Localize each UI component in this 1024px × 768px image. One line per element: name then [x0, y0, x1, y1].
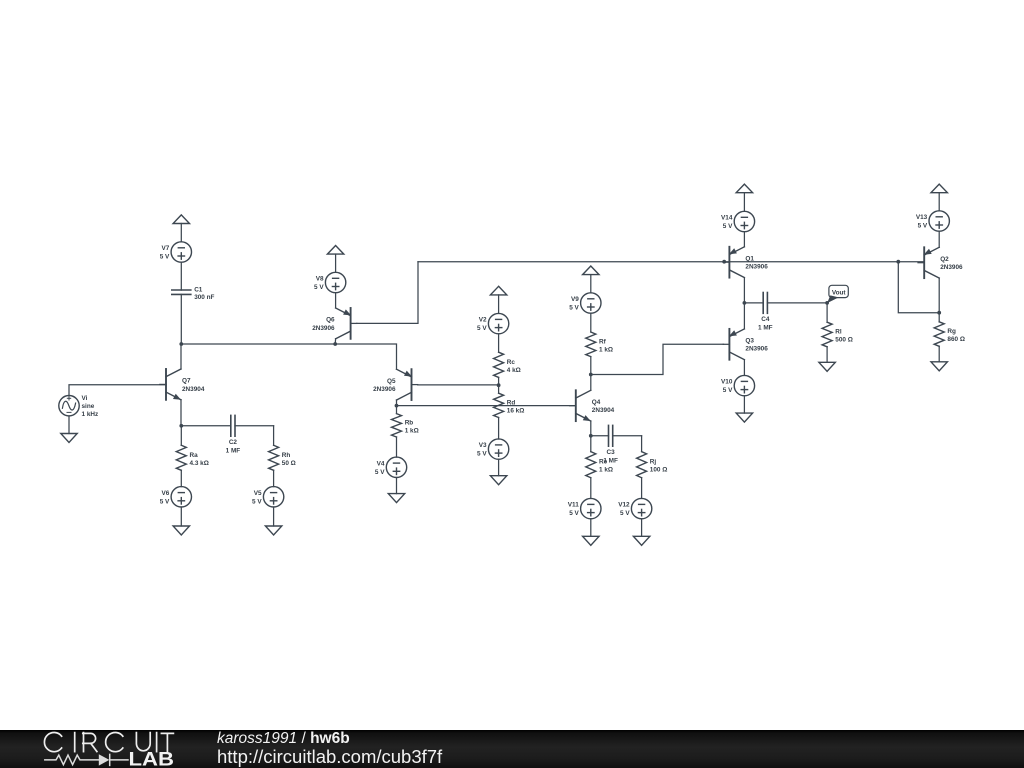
svg-text:2N3904: 2N3904 [592, 407, 615, 414]
wire Q2 collector down [938, 278, 940, 313]
voltage source V10 5 V [721, 375, 755, 395]
svg-text:V13: V13 [916, 214, 928, 221]
svg-text:1 kΩ: 1 kΩ [405, 427, 419, 434]
ground below Vi [61, 416, 77, 443]
svg-text:50 Ω: 50 Ω [282, 460, 296, 467]
svg-text:Rd: Rd [507, 399, 516, 406]
svg-text:5 V: 5 V [723, 223, 733, 230]
voltage source V9 5 V [569, 293, 601, 313]
svg-text:Vi: Vi [82, 395, 88, 402]
svg-text:Q4: Q4 [592, 399, 601, 406]
svg-text:Vout: Vout [832, 290, 847, 297]
svg-text:C1: C1 [194, 287, 203, 294]
wire V13 to Q2 emitter [938, 231, 940, 247]
svg-text:2N3906: 2N3906 [745, 264, 768, 271]
wire Vi to Q7 base [69, 385, 166, 396]
ground below Rg [931, 362, 947, 371]
wire node A to Q6 collector node [181, 343, 335, 345]
svg-text:2N3906: 2N3906 [373, 386, 396, 393]
svg-text:V4: V4 [377, 460, 385, 467]
svg-text:5 V: 5 V [160, 498, 170, 505]
CircuitLab logo resistor-diode glyph [45, 754, 128, 765]
svg-text:Q1: Q1 [745, 255, 754, 262]
svg-text:V10: V10 [721, 379, 733, 386]
wire Q5 base to Rc Rd node [418, 384, 499, 386]
wire Q4 collector up [590, 375, 592, 391]
svg-text:V8: V8 [316, 276, 324, 283]
svg-text:1 kΩ: 1 kΩ [599, 346, 613, 353]
resistor Ra 4.3 k [176, 426, 209, 487]
resistor Rl 500 [822, 303, 853, 362]
svg-text:Rg: Rg [947, 328, 956, 335]
svg-text:V3: V3 [479, 442, 487, 449]
svg-text:1 kHz: 1 kHz [82, 411, 99, 418]
voltage source V2 5 V [477, 313, 509, 333]
voltage source V8 5 V [314, 272, 346, 292]
transistor Q4 2N3904 [570, 390, 615, 421]
svg-text:Rf: Rf [599, 338, 607, 345]
svg-text:4 kΩ: 4 kΩ [507, 367, 521, 374]
wire Q3 collector to V10 [743, 360, 745, 376]
junction Q4 emitter node [589, 434, 593, 438]
ground below Rl [819, 362, 835, 371]
transistor Q3 2N3906 [723, 329, 768, 360]
svg-text:C2: C2 [229, 439, 238, 446]
voltage source V5 5 V [252, 487, 284, 507]
svg-text:5 V: 5 V [569, 305, 579, 312]
svg-text:V14: V14 [721, 215, 733, 222]
svg-text:Q6: Q6 [326, 317, 335, 324]
CircuitLab logo wordmark LAB [129, 749, 175, 768]
svg-text:V6: V6 [161, 490, 169, 497]
ground below V4 [388, 478, 404, 503]
svg-text:C4: C4 [761, 316, 770, 323]
power flag above V9 [583, 266, 599, 293]
junction Vout node [825, 301, 829, 305]
junction Q4 collector node [589, 373, 593, 377]
voltage source V6 5 V [160, 487, 192, 507]
transistor Q5 2N3906 [373, 369, 418, 400]
resistor Rb 1 k [392, 406, 419, 458]
svg-text:LAB: LAB [129, 749, 175, 768]
voltage source V13 5 V [916, 211, 950, 231]
svg-text:sine: sine [82, 403, 95, 410]
transistor Q6 2N3906 [312, 308, 357, 339]
wire Q1 collector to node D [743, 278, 745, 303]
resistor Rf 1 k [586, 313, 613, 374]
junction Q2 collector node [937, 311, 941, 315]
svg-text:5 V: 5 V [918, 223, 928, 230]
svg-text:2N3904: 2N3904 [182, 386, 205, 393]
wire Q7 collector to node A [180, 344, 182, 369]
svg-text:Q3: Q3 [745, 338, 754, 345]
junction node B [179, 424, 183, 428]
wire V14 to Q1 emitter [743, 232, 745, 247]
ground below V12 [633, 519, 649, 546]
junction bus at Q1 base [722, 260, 726, 264]
svg-text:1 kΩ: 1 kΩ [599, 467, 613, 474]
svg-text:1 MF: 1 MF [758, 325, 773, 332]
power flag above V8 [327, 246, 343, 273]
svg-text:Rj: Rj [650, 459, 657, 466]
resistor Rj 100 [637, 452, 668, 499]
svg-text:5 V: 5 V [723, 387, 733, 394]
svg-text:2N3906: 2N3906 [745, 346, 768, 353]
svg-text:4.3 kΩ: 4.3 kΩ [190, 460, 209, 467]
svg-text:Rh: Rh [282, 452, 291, 459]
capacitor C1 300 nF [172, 287, 215, 345]
voltage source V11 5 V [568, 498, 601, 518]
voltage source Vi sine 1 kHz [59, 395, 98, 418]
voltage source V7 5 V [160, 242, 192, 262]
svg-text:V9: V9 [571, 296, 579, 303]
wire Q4 emitter down [590, 421, 592, 436]
wire Q7 emitter to node B [180, 400, 182, 426]
svg-text:V11: V11 [568, 502, 579, 509]
wire C3 to Rj [641, 436, 643, 452]
svg-text:5 V: 5 V [375, 469, 385, 476]
ground below V6 [173, 507, 189, 535]
svg-text:16 kΩ: 16 kΩ [507, 407, 525, 414]
voltage source V4 5 V [375, 457, 407, 477]
resistor Rc 4 k [494, 334, 521, 385]
resistor Re 1 k [586, 436, 613, 499]
wire Q4 collector node to Q3 base [591, 344, 724, 374]
power flag above V13 [931, 184, 947, 211]
transistor Q7 2N3904 [160, 369, 205, 400]
svg-text:500 Ω: 500 Ω [835, 337, 853, 344]
junction node C [395, 404, 399, 408]
svg-text:300 nF: 300 nF [194, 294, 214, 301]
transistor Q2 2N3906 [918, 247, 963, 278]
svg-text:2N3906: 2N3906 [940, 264, 963, 271]
wire node C to Q4 base [397, 405, 576, 407]
ground below V11 [583, 519, 599, 546]
junction Q6 collector node [333, 342, 337, 346]
svg-text:5 V: 5 V [252, 498, 262, 505]
power flag above V2 [490, 286, 506, 313]
svg-text:100 Ω: 100 Ω [650, 467, 668, 474]
voltage source V14 5 V [721, 211, 755, 231]
transistor Q1 2N3906 [723, 247, 768, 278]
svg-text:5 V: 5 V [569, 510, 579, 517]
svg-text:Rb: Rb [405, 419, 414, 426]
svg-text:V5: V5 [254, 490, 262, 497]
wire node D to Q3 emitter [743, 303, 745, 329]
svg-text:5 V: 5 V [477, 325, 487, 332]
wire C2 to Rh [273, 426, 275, 446]
svg-text:Q5: Q5 [387, 378, 396, 385]
wire Q5 collector to node C [396, 400, 398, 406]
capacitor C3 1 MF [591, 425, 642, 464]
svg-text:Rc: Rc [507, 359, 516, 366]
svg-text:Ra: Ra [190, 452, 199, 459]
wire V8 to Q6 emitter [335, 293, 337, 308]
resistor Rh 50 [269, 445, 296, 486]
svg-text:2N3906: 2N3906 [312, 325, 335, 332]
node flag Vout [827, 285, 848, 303]
power flag above V14 [736, 184, 752, 211]
resistor Rd 16 k [494, 385, 525, 439]
bus wire to Q1 and Q2 bases [418, 261, 924, 263]
CircuitLab logo wordmark CIRCUIT [44, 733, 173, 752]
capacitor C4 1 MF [744, 293, 827, 332]
svg-text:5 V: 5 V [160, 254, 170, 261]
resistor Rg 860 [934, 313, 965, 362]
svg-text:C3: C3 [607, 449, 616, 456]
power flag above V7 [173, 215, 189, 242]
svg-text:Q2: Q2 [940, 256, 949, 263]
svg-text:1 MF: 1 MF [226, 447, 241, 454]
voltage source V3 5 V [477, 439, 509, 459]
wire Q6 collector down [334, 339, 336, 344]
svg-text:V2: V2 [479, 317, 487, 324]
svg-text:5 V: 5 V [314, 284, 324, 291]
junction Rc Rd node at Q5 base [497, 383, 501, 387]
ground below V10 [736, 396, 752, 422]
ground below V5 [265, 507, 281, 535]
junction node A [179, 342, 183, 346]
svg-text:5 V: 5 V [477, 451, 487, 458]
wire Q6 base to bus [357, 262, 418, 324]
svg-text:Re: Re [599, 459, 608, 466]
svg-text:860 Ω: 860 Ω [947, 336, 965, 343]
wire V7 to C1 [180, 262, 182, 290]
svg-text:Q7: Q7 [182, 378, 191, 385]
ground below V3 [490, 459, 506, 484]
junction node D [743, 301, 747, 305]
capacitor C2 1 MF [181, 415, 273, 454]
svg-text:5 V: 5 V [620, 510, 630, 517]
svg-text:Rl: Rl [835, 329, 842, 336]
svg-text:V7: V7 [161, 245, 169, 252]
wire Q6 collector node to Q5 emitter [335, 344, 396, 369]
wire Q2 base to collector [898, 262, 939, 313]
junction bus at Q2 base [896, 260, 900, 264]
svg-text:V12: V12 [618, 502, 630, 509]
voltage source V12 5 V [618, 498, 652, 518]
